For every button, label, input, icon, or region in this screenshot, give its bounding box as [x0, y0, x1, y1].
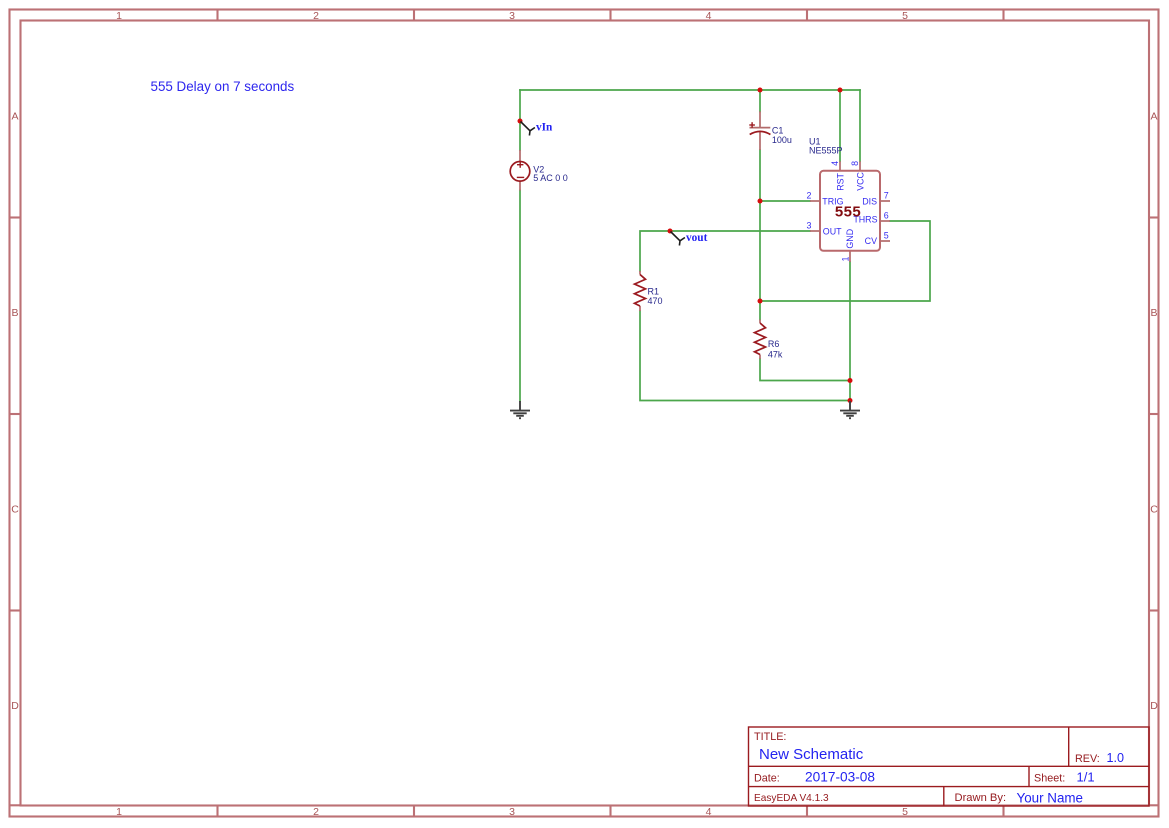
svg-text:6: 6 [884, 210, 889, 220]
svg-text:555 Delay on 7 seconds: 555 Delay on 7 seconds [151, 79, 295, 94]
svg-text:1/1: 1/1 [1077, 770, 1095, 785]
svg-text:D: D [11, 700, 19, 712]
svg-text:CV: CV [865, 236, 877, 246]
svg-text:Drawn By:: Drawn By: [955, 792, 1007, 804]
svg-text:8: 8 [850, 161, 860, 166]
svg-text:Date:: Date: [754, 773, 780, 785]
svg-text:RST: RST [835, 172, 845, 190]
svg-text:47k: 47k [768, 350, 783, 360]
svg-text:1: 1 [840, 257, 850, 262]
svg-text:C: C [11, 504, 19, 516]
svg-text:4: 4 [706, 806, 712, 818]
svg-text:5: 5 [902, 806, 908, 818]
svg-text:R1: R1 [648, 286, 660, 296]
svg-text:3: 3 [509, 806, 515, 818]
svg-text:VCC: VCC [855, 171, 865, 190]
svg-text:5 AC 0 0: 5 AC 0 0 [533, 173, 568, 183]
svg-text:B: B [11, 307, 18, 319]
svg-text:100u: 100u [772, 135, 792, 145]
svg-text:1: 1 [116, 806, 122, 818]
svg-text:7: 7 [884, 190, 889, 200]
svg-text:REV:: REV: [1075, 753, 1100, 765]
svg-text:New Schematic: New Schematic [759, 746, 864, 763]
svg-text:C: C [1150, 504, 1158, 516]
svg-text:vIn: vIn [536, 122, 553, 134]
svg-text:2: 2 [807, 190, 812, 200]
svg-text:DIS: DIS [862, 196, 877, 206]
svg-text:R6: R6 [768, 339, 780, 349]
svg-text:TITLE:: TITLE: [754, 731, 786, 743]
svg-text:NE555P: NE555P [809, 146, 843, 156]
svg-text:2: 2 [313, 10, 319, 22]
svg-text:A: A [1150, 111, 1157, 123]
svg-text:3: 3 [509, 10, 515, 22]
svg-text:470: 470 [648, 296, 663, 306]
svg-text:555: 555 [835, 204, 861, 221]
svg-text:4: 4 [706, 10, 712, 22]
svg-text:5: 5 [884, 230, 889, 240]
svg-text:5: 5 [902, 10, 908, 22]
svg-text:4: 4 [830, 161, 840, 166]
svg-text:vout: vout [686, 232, 708, 244]
svg-text:3: 3 [807, 220, 812, 230]
svg-text:1: 1 [116, 10, 122, 22]
svg-text:2017-03-08: 2017-03-08 [805, 770, 875, 785]
svg-text:GND: GND [845, 229, 855, 249]
svg-text:OUT: OUT [823, 227, 842, 237]
svg-text:2: 2 [313, 806, 319, 818]
svg-text:D: D [1150, 700, 1158, 712]
svg-text:EasyEDA V4.1.3: EasyEDA V4.1.3 [754, 793, 829, 804]
svg-text:Your Name: Your Name [1017, 791, 1084, 806]
svg-text:Sheet:: Sheet: [1034, 773, 1065, 785]
svg-text:A: A [11, 111, 18, 123]
svg-text:B: B [1150, 307, 1157, 319]
svg-text:1.0: 1.0 [1107, 751, 1125, 765]
